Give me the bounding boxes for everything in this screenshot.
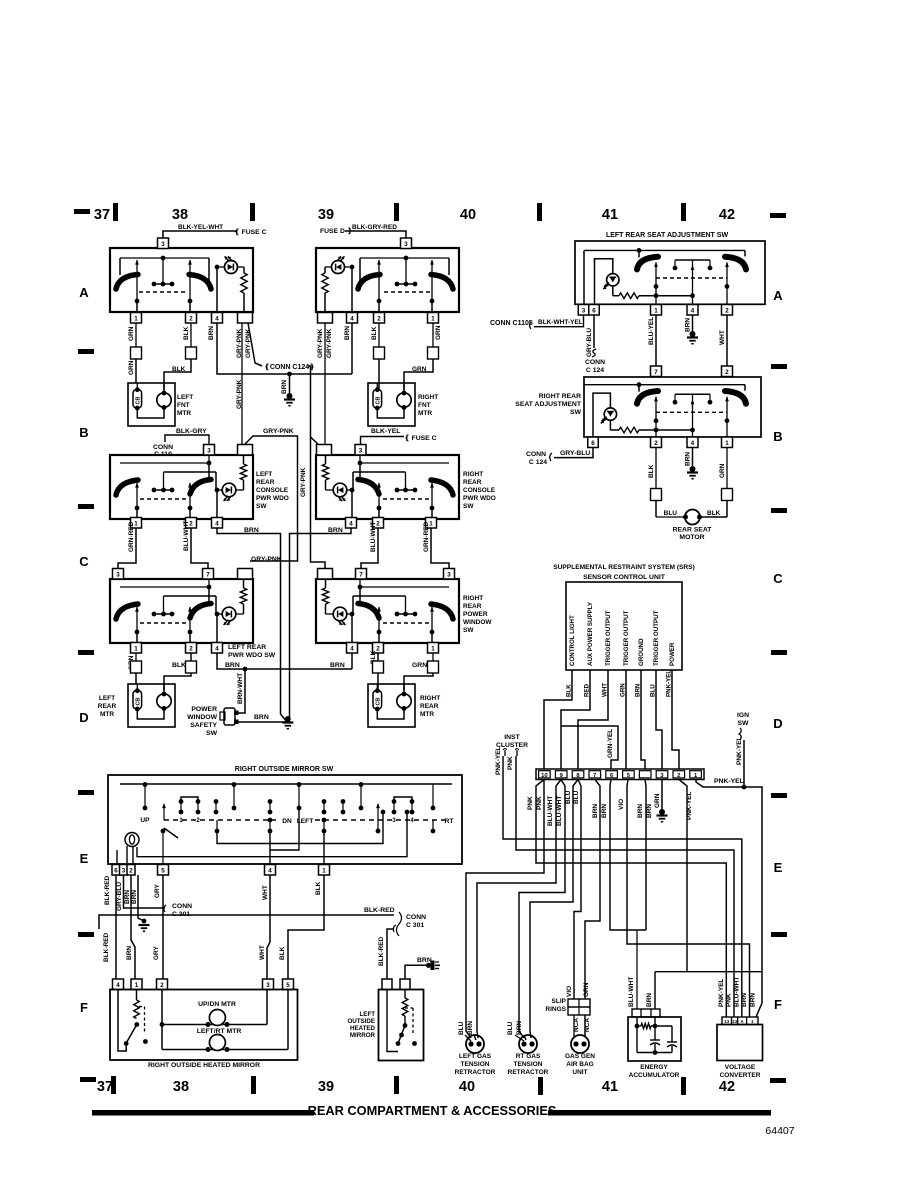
svg-text:4: 4 [215, 315, 219, 322]
svg-text:C: C [79, 554, 89, 569]
svg-text:6: 6 [592, 307, 596, 314]
svg-text:BRN: BRN [330, 662, 345, 669]
svg-text:TRIGGER OUTPUT: TRIGGER OUTPUT [653, 610, 660, 666]
svg-text:1: 1 [134, 315, 138, 322]
svg-text:PNK-YEL: PNK-YEL [718, 978, 725, 1007]
svg-text:BLK: BLK [315, 881, 322, 895]
svg-text:2: 2 [189, 645, 193, 652]
svg-text:BRN: BRN [281, 380, 288, 394]
svg-text:LEFT GAS: LEFT GAS [459, 1053, 492, 1060]
svg-text:BLK: BLK [183, 326, 190, 340]
svg-text:FNT: FNT [177, 402, 190, 409]
svg-text:MTR: MTR [100, 711, 114, 718]
svg-text:TRIGGER OUTPUT: TRIGGER OUTPUT [605, 610, 612, 666]
svg-text:F: F [774, 997, 782, 1012]
svg-text:TENSION: TENSION [461, 1061, 490, 1068]
svg-text:7: 7 [593, 773, 596, 779]
svg-text:CONTROL LIGHT: CONTROL LIGHT [569, 615, 576, 666]
svg-text:SW: SW [256, 503, 267, 510]
svg-text:PNK: PNK [507, 756, 514, 770]
svg-text:2: 2 [677, 773, 680, 779]
svg-text:REAR: REAR [420, 703, 439, 710]
svg-text:❴ FUSE C: ❴ FUSE C [234, 228, 267, 236]
svg-text:BRN: BRN [637, 804, 644, 818]
svg-text:CONN: CONN [406, 914, 426, 921]
svg-text:GRY-BLU: GRY-BLU [586, 328, 593, 357]
svg-text:GRN-YEL: GRN-YEL [607, 729, 614, 758]
svg-text:HEATED: HEATED [350, 1025, 376, 1032]
svg-text:C 124: C 124 [586, 367, 604, 374]
svg-text:GRY-PNK: GRY-PNK [251, 556, 282, 563]
svg-text:GRY-BLU: GRY-BLU [116, 882, 123, 911]
svg-text:1: 1 [134, 645, 138, 652]
svg-text:POWER: POWER [191, 706, 217, 713]
svg-text:BRN: BRN [254, 714, 269, 721]
svg-text:CONN: CONN [526, 451, 546, 458]
svg-text:GRN: GRN [128, 360, 135, 375]
svg-text:RIGHT: RIGHT [463, 471, 483, 478]
svg-text:CONN: CONN [585, 359, 605, 366]
svg-text:BRN: BRN [208, 326, 215, 340]
svg-text:WHT: WHT [262, 885, 269, 900]
svg-text:GRN-RED: GRN-RED [423, 521, 430, 552]
svg-text:D: D [773, 716, 782, 731]
svg-text:13: 13 [724, 1019, 730, 1024]
svg-text:6: 6 [114, 867, 118, 874]
svg-text:IGN: IGN [737, 712, 749, 719]
svg-text:GRN: GRN [128, 326, 135, 341]
svg-text:RIGHT REAR: RIGHT REAR [539, 393, 581, 400]
svg-text:2: 2 [196, 818, 200, 824]
svg-text:REAR: REAR [463, 603, 482, 610]
svg-text:BLU-YEL: BLU-YEL [648, 317, 655, 345]
svg-text:UNIT: UNIT [572, 1069, 587, 1076]
svg-text:FNT: FNT [418, 402, 431, 409]
svg-text:2: 2 [189, 315, 193, 322]
svg-text:PWR WDO: PWR WDO [463, 495, 496, 502]
svg-text:VIO: VIO [566, 986, 573, 997]
svg-text:POWER: POWER [463, 611, 488, 618]
svg-text:GRN: GRN [412, 662, 427, 669]
svg-text:AUX POWER SUPPLY: AUX POWER SUPPLY [587, 601, 594, 666]
svg-text:GRY-PNK: GRY-PNK [317, 328, 324, 358]
svg-text:4: 4 [215, 520, 219, 527]
svg-text:SW: SW [463, 627, 474, 634]
svg-text:1: 1 [179, 818, 183, 824]
svg-text:1: 1 [431, 315, 435, 322]
svg-text:SW: SW [738, 720, 750, 727]
svg-text:CONVERTER: CONVERTER [720, 1072, 761, 1079]
svg-text:A: A [740, 1019, 744, 1024]
svg-text:BLK-RED: BLK-RED [378, 936, 385, 966]
svg-text:BLK: BLK [279, 946, 286, 960]
svg-text:GRN: GRN [654, 793, 661, 808]
svg-text:3: 3 [359, 447, 363, 454]
svg-text:CONN: CONN [172, 903, 192, 910]
svg-text:4: 4 [350, 645, 354, 652]
svg-text:1: 1 [725, 440, 729, 447]
svg-text:C: C [773, 571, 783, 586]
svg-text:BRN: BRN [646, 993, 653, 1007]
svg-text:E: E [774, 860, 783, 875]
svg-text:GAS GEN: GAS GEN [565, 1053, 595, 1060]
svg-text:13: 13 [732, 1019, 738, 1024]
svg-text:TRIGGER OUTPUT: TRIGGER OUTPUT [623, 610, 630, 666]
svg-text:7: 7 [654, 369, 658, 376]
svg-text:SEAT ADJUSTMENT: SEAT ADJUSTMENT [515, 401, 582, 408]
svg-text:LEFT REAR: LEFT REAR [228, 644, 266, 651]
svg-text:REAR SEAT: REAR SEAT [673, 527, 713, 534]
svg-text:BLU: BLU [507, 1021, 514, 1035]
svg-text:GROUND: GROUND [638, 638, 645, 666]
svg-text:4: 4 [410, 818, 414, 824]
svg-text:BRN: BRN [741, 993, 748, 1007]
svg-text:LEFT REAR SEAT ADJUSTMENT SW: LEFT REAR SEAT ADJUSTMENT SW [606, 232, 729, 239]
svg-text:4: 4 [350, 315, 354, 322]
svg-text:OUTSIDE: OUTSIDE [347, 1018, 375, 1025]
svg-text:3: 3 [161, 241, 165, 248]
svg-text:REAR: REAR [463, 479, 482, 486]
svg-text:4: 4 [268, 867, 272, 874]
svg-text:CB: CB [136, 697, 142, 705]
svg-text:1: 1 [751, 1019, 754, 1024]
svg-text:41: 41 [602, 207, 618, 223]
svg-text:LEFT: LEFT [177, 394, 193, 401]
svg-text:42: 42 [719, 1079, 735, 1095]
svg-text:5: 5 [161, 867, 165, 874]
svg-text:BLU-WHT: BLU-WHT [370, 522, 377, 552]
svg-text:D: D [79, 710, 88, 725]
svg-text:LEFT: LEFT [99, 695, 115, 702]
svg-text:3: 3 [207, 447, 211, 454]
svg-text:2: 2 [160, 982, 164, 989]
svg-text:BRN: BRN [225, 662, 240, 669]
svg-text:SUPPLEMENTAL RESTRAINT SYSTEM: SUPPLEMENTAL RESTRAINT SYSTEM (SRS) [553, 564, 695, 571]
svg-text:7: 7 [359, 571, 363, 578]
svg-text:DN: DN [282, 818, 292, 825]
svg-text:MTR: MTR [420, 711, 434, 718]
svg-text:37: 37 [94, 207, 110, 223]
svg-text:GRY: GRY [154, 883, 161, 898]
svg-text:1: 1 [431, 645, 435, 652]
svg-text:1: 1 [654, 307, 658, 314]
svg-text:TENSION: TENSION [514, 1061, 543, 1068]
svg-text:SW: SW [206, 730, 218, 737]
svg-text:FUSE D ❵: FUSE D ❵ [320, 227, 353, 235]
svg-text:SW: SW [463, 503, 474, 510]
svg-text:3: 3 [266, 982, 270, 989]
svg-text:BLK-RED: BLK-RED [103, 932, 110, 962]
svg-text:BLU-WHT: BLU-WHT [547, 796, 554, 826]
svg-text:RETRACTOR: RETRACTOR [508, 1069, 549, 1076]
svg-text:RIGHT OUTSIDE MIRROR SW: RIGHT OUTSIDE MIRROR SW [235, 766, 334, 773]
svg-text:BRN: BRN [124, 890, 131, 904]
svg-text:BLK: BLK [172, 662, 186, 669]
svg-text:38: 38 [172, 207, 188, 223]
svg-text:1: 1 [322, 867, 326, 874]
svg-text:BLK: BLK [707, 510, 721, 517]
svg-text:WINDOW: WINDOW [187, 714, 217, 721]
svg-text:3: 3 [122, 867, 126, 874]
svg-text:BLU-WHT: BLU-WHT [183, 521, 190, 551]
svg-text:BRN: BRN [601, 804, 608, 818]
svg-text:BLK-WHT-YEL: BLK-WHT-YEL [538, 319, 583, 326]
svg-text:BRN-WHT: BRN-WHT [237, 673, 244, 704]
svg-text:RT GAS: RT GAS [516, 1053, 541, 1060]
svg-text:RIGHT: RIGHT [418, 394, 438, 401]
svg-text:4: 4 [691, 440, 695, 447]
svg-text:MTR: MTR [177, 410, 191, 417]
svg-text:PNK: PNK [527, 796, 534, 810]
svg-text:2: 2 [725, 369, 729, 376]
svg-text:SAFETY: SAFETY [190, 722, 217, 729]
svg-text:C 301: C 301 [406, 922, 424, 929]
svg-text:BLK-YEL: BLK-YEL [371, 428, 400, 435]
svg-text:3: 3 [116, 571, 120, 578]
svg-text:5: 5 [286, 982, 290, 989]
svg-text:10: 10 [541, 773, 547, 779]
svg-text:GRY-PNK: GRY-PNK [263, 428, 294, 435]
svg-text:VOLTAGE: VOLTAGE [725, 1064, 756, 1071]
svg-text:LEFT: LEFT [256, 471, 272, 478]
svg-text:ACCUMULATOR: ACCUMULATOR [629, 1072, 680, 1079]
svg-text:BLU-WHT: BLU-WHT [734, 977, 741, 1007]
svg-text:BRN: BRN [467, 1021, 474, 1035]
svg-text:MIRROR: MIRROR [350, 1032, 376, 1039]
svg-text:MTR: MTR [418, 410, 432, 417]
svg-text:BLU: BLU [458, 1021, 465, 1035]
svg-text:BRN: BRN [646, 804, 653, 818]
svg-text:POWER: POWER [669, 642, 676, 666]
svg-text:GRY-PNK: GRY-PNK [326, 328, 333, 358]
svg-text:7: 7 [206, 571, 210, 578]
svg-text:VIO: VIO [618, 799, 625, 810]
svg-text:BLK-GRY-RED: BLK-GRY-RED [352, 224, 397, 231]
svg-text:PNK-YEL: PNK-YEL [495, 746, 502, 775]
svg-text:BLU: BLU [573, 790, 580, 804]
svg-text:6: 6 [591, 440, 595, 447]
svg-text:BLU-WHT: BLU-WHT [556, 796, 563, 826]
svg-text:B: B [773, 429, 782, 444]
svg-text:RETRACTOR: RETRACTOR [455, 1069, 496, 1076]
svg-text:MOTOR: MOTOR [679, 534, 704, 541]
svg-text:BLK: BLK [172, 366, 186, 373]
svg-text:4: 4 [116, 982, 120, 989]
svg-text:GRY-PNK: GRY-PNK [300, 467, 307, 497]
svg-text:BLK-YEL-WHT: BLK-YEL-WHT [178, 224, 223, 231]
svg-text:BRN: BRN [126, 946, 133, 960]
svg-text:39: 39 [318, 1079, 334, 1095]
svg-text:REAR: REAR [256, 479, 275, 486]
svg-text:64407: 64407 [765, 1125, 794, 1137]
svg-text:GRY: GRY [153, 945, 160, 960]
svg-text:41: 41 [602, 1079, 618, 1095]
svg-text:F: F [80, 1000, 88, 1015]
svg-text:AIR BAG: AIR BAG [566, 1061, 593, 1068]
svg-text:2: 2 [377, 315, 381, 322]
svg-text:SENSOR CONTROL UNIT: SENSOR CONTROL UNIT [583, 574, 666, 581]
svg-text:RIGHT OUTSIDE HEATED MIRROR: RIGHT OUTSIDE HEATED MIRROR [148, 1062, 260, 1069]
svg-text:BLK: BLK [648, 464, 655, 478]
svg-text:BLU-WHT: BLU-WHT [628, 977, 635, 1007]
svg-text:REAR: REAR [98, 703, 117, 710]
svg-text:4: 4 [215, 645, 219, 652]
svg-text:PWR WDO: PWR WDO [256, 495, 289, 502]
svg-text:CONN: CONN [153, 444, 173, 451]
svg-text:GRY-PNK: GRY-PNK [236, 379, 243, 409]
svg-text:CONSOLE: CONSOLE [256, 487, 289, 494]
svg-text:BRN: BRN [131, 890, 138, 904]
svg-text:3: 3 [447, 571, 451, 578]
svg-text:INST: INST [504, 734, 520, 741]
svg-text:CONN C1105: CONN C1105 [490, 320, 533, 327]
svg-text:GRN: GRN [719, 463, 726, 478]
svg-text:38: 38 [173, 1079, 189, 1095]
svg-text:ENERGY: ENERGY [640, 1064, 668, 1071]
svg-text:BLU: BLU [565, 790, 572, 804]
svg-text:BLK-RED: BLK-RED [104, 875, 111, 905]
svg-text:RINGS: RINGS [545, 1006, 566, 1013]
svg-text:37: 37 [97, 1079, 113, 1095]
svg-text:40: 40 [460, 207, 476, 223]
svg-text:BRN: BRN [685, 318, 692, 332]
svg-text:A: A [773, 288, 783, 303]
svg-text:❴CONN C124❵: ❴CONN C124❵ [264, 363, 315, 371]
svg-text:RIGHT: RIGHT [420, 695, 440, 702]
svg-text:3: 3 [404, 241, 408, 248]
svg-text:BLU: BLU [664, 510, 678, 517]
svg-text:40: 40 [459, 1079, 475, 1095]
svg-text:BRN: BRN [685, 452, 692, 466]
svg-text:REAR COMPARTMENT & ACCESSORIES: REAR COMPARTMENT & ACCESSORIES [308, 1103, 557, 1118]
svg-text:GRN: GRN [412, 366, 427, 373]
svg-text:PWR WDO SW: PWR WDO SW [228, 652, 276, 659]
svg-text:PNK: PNK [536, 796, 543, 810]
svg-text:BLK-GRY: BLK-GRY [176, 428, 207, 435]
svg-text:3: 3 [392, 818, 396, 824]
svg-text:42: 42 [719, 207, 735, 223]
svg-text:SLIP: SLIP [552, 998, 567, 1005]
svg-text:CONSOLE: CONSOLE [463, 487, 496, 494]
svg-text:BLK-RED: BLK-RED [364, 907, 395, 914]
svg-text:UP: UP [140, 817, 150, 824]
svg-text:BRN: BRN [516, 1021, 523, 1035]
svg-text:❴ FUSE C: ❴ FUSE C [404, 434, 437, 442]
svg-text:3: 3 [582, 307, 586, 314]
svg-text:CB: CB [136, 396, 142, 404]
svg-text:GRN-RED: GRN-RED [128, 521, 135, 552]
svg-text:BLK: BLK [371, 326, 378, 340]
svg-text:GRN: GRN [583, 982, 590, 997]
svg-text:RT: RT [445, 818, 454, 825]
svg-text:A: A [79, 285, 89, 300]
svg-text:GRN: GRN [435, 325, 442, 340]
svg-text:C 110: C 110 [154, 451, 172, 458]
svg-text:39: 39 [318, 207, 334, 223]
svg-text:2: 2 [129, 867, 133, 874]
svg-text:BRN: BRN [750, 993, 757, 1007]
svg-text:2: 2 [654, 440, 658, 447]
svg-text:BRN: BRN [344, 326, 351, 340]
svg-text:4: 4 [349, 520, 353, 527]
svg-text:RIGHT: RIGHT [463, 595, 483, 602]
svg-text:2: 2 [725, 307, 729, 314]
svg-text:LEFT: LEFT [360, 1011, 376, 1018]
svg-text:E: E [80, 851, 89, 866]
svg-text:WHT: WHT [259, 945, 266, 960]
svg-text:C 124: C 124 [529, 459, 547, 466]
svg-text:PNK-YEL: PNK-YEL [736, 736, 743, 765]
svg-text:PNK: PNK [726, 993, 733, 1007]
svg-text:CB: CB [376, 396, 382, 404]
svg-text:CB: CB [376, 697, 382, 705]
svg-text:SW: SW [570, 409, 582, 416]
svg-text:GRY-BLU: GRY-BLU [560, 450, 590, 457]
svg-text:PNK-YEL: PNK-YEL [714, 778, 744, 785]
svg-text:WHT: WHT [719, 330, 726, 345]
svg-text:4: 4 [691, 307, 695, 314]
svg-text:1: 1 [135, 982, 139, 989]
svg-text:B: B [79, 425, 88, 440]
svg-text:BRN: BRN [592, 804, 599, 818]
svg-text:WINDOW: WINDOW [463, 619, 492, 626]
svg-text:UP/DN MTR: UP/DN MTR [198, 1001, 236, 1008]
